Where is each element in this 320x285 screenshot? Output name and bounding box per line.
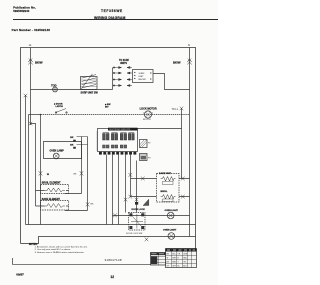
oven lamp loop [44,142,82,159]
wire EOC to L1 line [138,128,182,130]
connector X on wire y175 [129,173,133,177]
connector body blob [135,202,138,205]
element coil upper [161,177,176,182]
connector X bake right [181,177,185,181]
svg-text:N: N [188,43,190,47]
wire bake feed [36,206,88,211]
svg-text:BL: BL [178,266,180,268]
door lock assembly dashed box [129,213,146,231]
svg-text:MOTOR: MOTOR [143,119,151,121]
legend table right block [166,249,197,268]
wire EOC pin 1 drop [106,155,108,225]
svg-text:OVEN LAMP: OVEN LAMP [50,149,65,152]
svg-text:BROIL ELEMENT: BROIL ELEMENT [42,182,61,184]
svg-text:BK: BK [70,144,74,146]
svg-text:TO L1: TO L1 [172,109,179,111]
bottom bus wire [26,224,196,226]
svg-text:LATCH: LATCH [56,105,64,108]
connector X on latch drop [39,171,43,175]
broil element dashed box [41,185,69,194]
lock corner pads [129,213,144,229]
svg-text:RECEP: RECEP [139,79,147,81]
svg-text:SURF UNIT SW: SURF UNIT SW [81,91,99,94]
connector X under row [145,238,149,242]
connector X [86,202,90,206]
legend table left block [151,253,166,266]
EOC pins left [97,132,98,150]
svg-text:DOOR LOCK SW: DOOR LOCK SW [126,233,142,235]
svg-text:P2: P2 [148,143,151,145]
connector X bake left [141,177,145,181]
svg-text:UNIT: UNIT [139,76,145,78]
connector X TO L1 [180,107,184,111]
svg-text:NOTES:: NOTES: [29,244,38,246]
svg-text:2. Use only wire rated 90 C or: 2. Use only wire rated 90 C or above. [35,248,72,251]
lock cross wiring [131,214,143,229]
svg-text:SURF: SURF [139,73,146,75]
header rule [13,19,218,21]
frame bottom step [21,237,196,244]
terminal row 2 [113,72,132,74]
oven light row [113,215,190,217]
door latch row dashed [41,114,190,116]
connector X broil right [181,195,185,199]
wire broil feed [36,191,82,194]
svg-text:TEF356WE: TEF356WE [101,9,123,13]
connector X broil left [129,195,133,199]
diagram frame [21,48,196,268]
lamp symbol [53,153,59,159]
svg-text:WIRING DIAGRAM: WIRING DIAGRAM [94,16,125,20]
right element dashed box [157,174,180,203]
svg-text:BK: BK [70,137,74,139]
svg-text:12: 12 [110,275,114,279]
lamp stub upper [77,136,88,138]
svg-text:⌀ DOOR: ⌀ DOOR [54,102,63,105]
connector X light row [113,213,117,217]
connector on N [187,59,191,65]
wire left vertical B [28,115,30,225]
svg-text:BK/W: BK/W [35,60,43,64]
svg-text:LOCK MOTOR: LOCK MOTOR [140,107,157,110]
svg-text:OVEN LIGHT: OVEN LIGHT [165,210,179,212]
svg-text:TO SURF: TO SURF [119,60,130,62]
wire relay R2 drop [136,161,138,213]
wire P1 to N [153,74,190,90]
svg-text:⌀ SW: ⌀ SW [105,103,111,106]
relay box R2 [140,154,148,161]
connector X above lock assembly left [124,198,128,202]
wire latch drop [40,115,42,225]
wire EOC pin 5 drop [130,155,132,197]
lock motor [144,111,151,118]
wire element feed vertical [31,124,36,207]
connector X on left bus [24,94,28,97]
svg-text:09/97: 09/97 [16,273,24,277]
wire EOC pin 3 drop [118,155,120,225]
relay K1 in EOC [103,133,109,149]
svg-text:OVEN LIGHT: OVEN LIGHT [163,230,177,232]
EOC bottom pad strip [99,152,136,155]
svg-text:BK/W: BK/W [173,60,181,64]
connector X on L1 lower [29,122,33,125]
surface switch bank SW [81,77,98,90]
door latch row wire [29,114,41,116]
svg-text:W: W [167,258,169,260]
wire TO L1 drop [181,108,183,179]
oven light lamp [167,212,174,219]
svg-text:TOD: TOD [51,84,57,88]
bake element dashed box [41,201,69,211]
connector X above lock assembly right [135,198,139,202]
svg-text:BK: BK [74,174,77,176]
broil element coil [45,188,65,192]
svg-text:L1: L1 [29,43,32,47]
wire left vertical A [25,96,27,225]
svg-text:W: W [47,174,50,176]
terminal row 4 [113,85,132,87]
relay K2 in EOC [111,133,117,149]
relay box R1 [140,140,148,148]
svg-text:YEL: YEL [183,262,186,264]
svg-text:P3: P3 [148,158,151,160]
svg-text:5995352940: 5995352940 [13,9,29,13]
lamp stub lower [77,144,88,146]
switch contact [56,109,66,113]
wire EOC pin 4 drop [125,155,127,213]
connector plug P1 [133,70,154,83]
svg-text:INT: INT [105,107,109,109]
svg-text:ORN: ORN [183,254,188,256]
svg-text:DOOR LOCK: DOOR LOCK [132,209,146,211]
svg-text:ELECTRONIC OVEN CTRL: ELECTRONIC OVEN CTRL [110,129,131,131]
connector on L1 [28,59,32,65]
svg-text:BROIL: BROIL [161,191,168,193]
fuse TOD [53,87,58,92]
terminal row 3 [113,79,132,81]
relay K4 in EOC [128,133,134,141]
terminal row 1 [113,67,132,69]
svg-text:UNITS: UNITS [120,63,127,65]
svg-text:1. All switches shown with no: 1. All switches shown with no current fl… [35,246,88,249]
wire L1 drop [30,48,32,126]
wire N drop [189,48,191,237]
vertical joining terminal rows [112,68,114,90]
wire main top run [31,89,113,91]
hatched wedge [143,199,149,205]
wire bake row [131,178,190,180]
footer rule [13,258,152,264]
svg-text:3. Harness wire is 18 AWG unle: 3. Harness wire is 18 AWG unless noted o… [35,251,85,254]
relay K3 in EOC [120,133,126,149]
svg-text:BK: BK [91,204,94,206]
svg-text:Part Number - 319592146: Part Number - 319592146 [12,28,51,32]
wire EOC pin 2 drop [112,155,114,225]
lamp 2 [168,233,175,240]
EOC electronic oven control box [98,129,138,152]
svg-text:318047148: 318047148 [105,258,122,262]
bake element coil [45,204,65,208]
wire broil row right [131,196,190,198]
element coil lower [161,195,176,200]
connector X [80,171,84,175]
wire lamp stub vertical [87,137,89,211]
wire lamp loop drop [81,137,83,194]
